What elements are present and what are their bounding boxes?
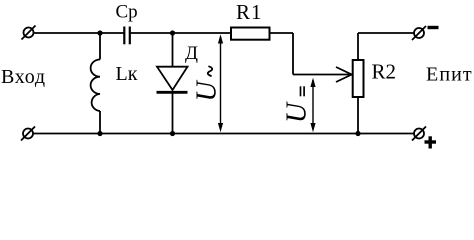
svg-text:Lк: Lк [116,63,138,85]
node diode bottom [170,131,175,136]
terminal output plus [412,127,426,141]
svg-text:Епит: Епит [426,64,473,86]
node Lk bottom [97,131,102,136]
voltage arrow U= [310,78,315,133]
resistor R1 [231,28,270,40]
wire to wiper [293,74,350,76]
node diode top [170,30,175,35]
node Lk top [97,30,102,35]
voltage arrow U~ [218,34,223,132]
wire R1 to corner [270,32,294,34]
wire R2 bottom [357,97,359,134]
wire bottom rail [33,133,414,135]
wire cap to R1 [131,32,232,34]
plus sign [425,136,437,148]
wire minus terminal to R2 top [358,32,414,34]
wire R2 top down [357,33,359,60]
minus sign [428,26,439,29]
diode D [157,33,188,134]
terminal input top [22,26,36,40]
wiper arrowhead [336,67,352,82]
tilde of U~ [208,66,212,76]
svg-text:U: U [192,80,223,102]
svg-text:U: U [282,101,313,123]
capacitor Cp [124,27,130,45]
wire corner down [292,33,294,75]
svg-text:R2: R2 [372,60,397,84]
svg-text:R1: R1 [236,0,263,24]
inductor Lk [91,33,100,134]
node R2 bottom [355,131,360,136]
svg-text:Ср: Ср [116,2,138,23]
equals of U= [301,86,305,96]
potentiometer R2 [353,60,364,97]
terminal output minus [412,26,426,40]
wire top rail left [34,32,124,34]
terminal input bottom [21,127,35,141]
svg-text:Вход: Вход [1,66,46,88]
svg-text:Д: Д [185,43,198,64]
